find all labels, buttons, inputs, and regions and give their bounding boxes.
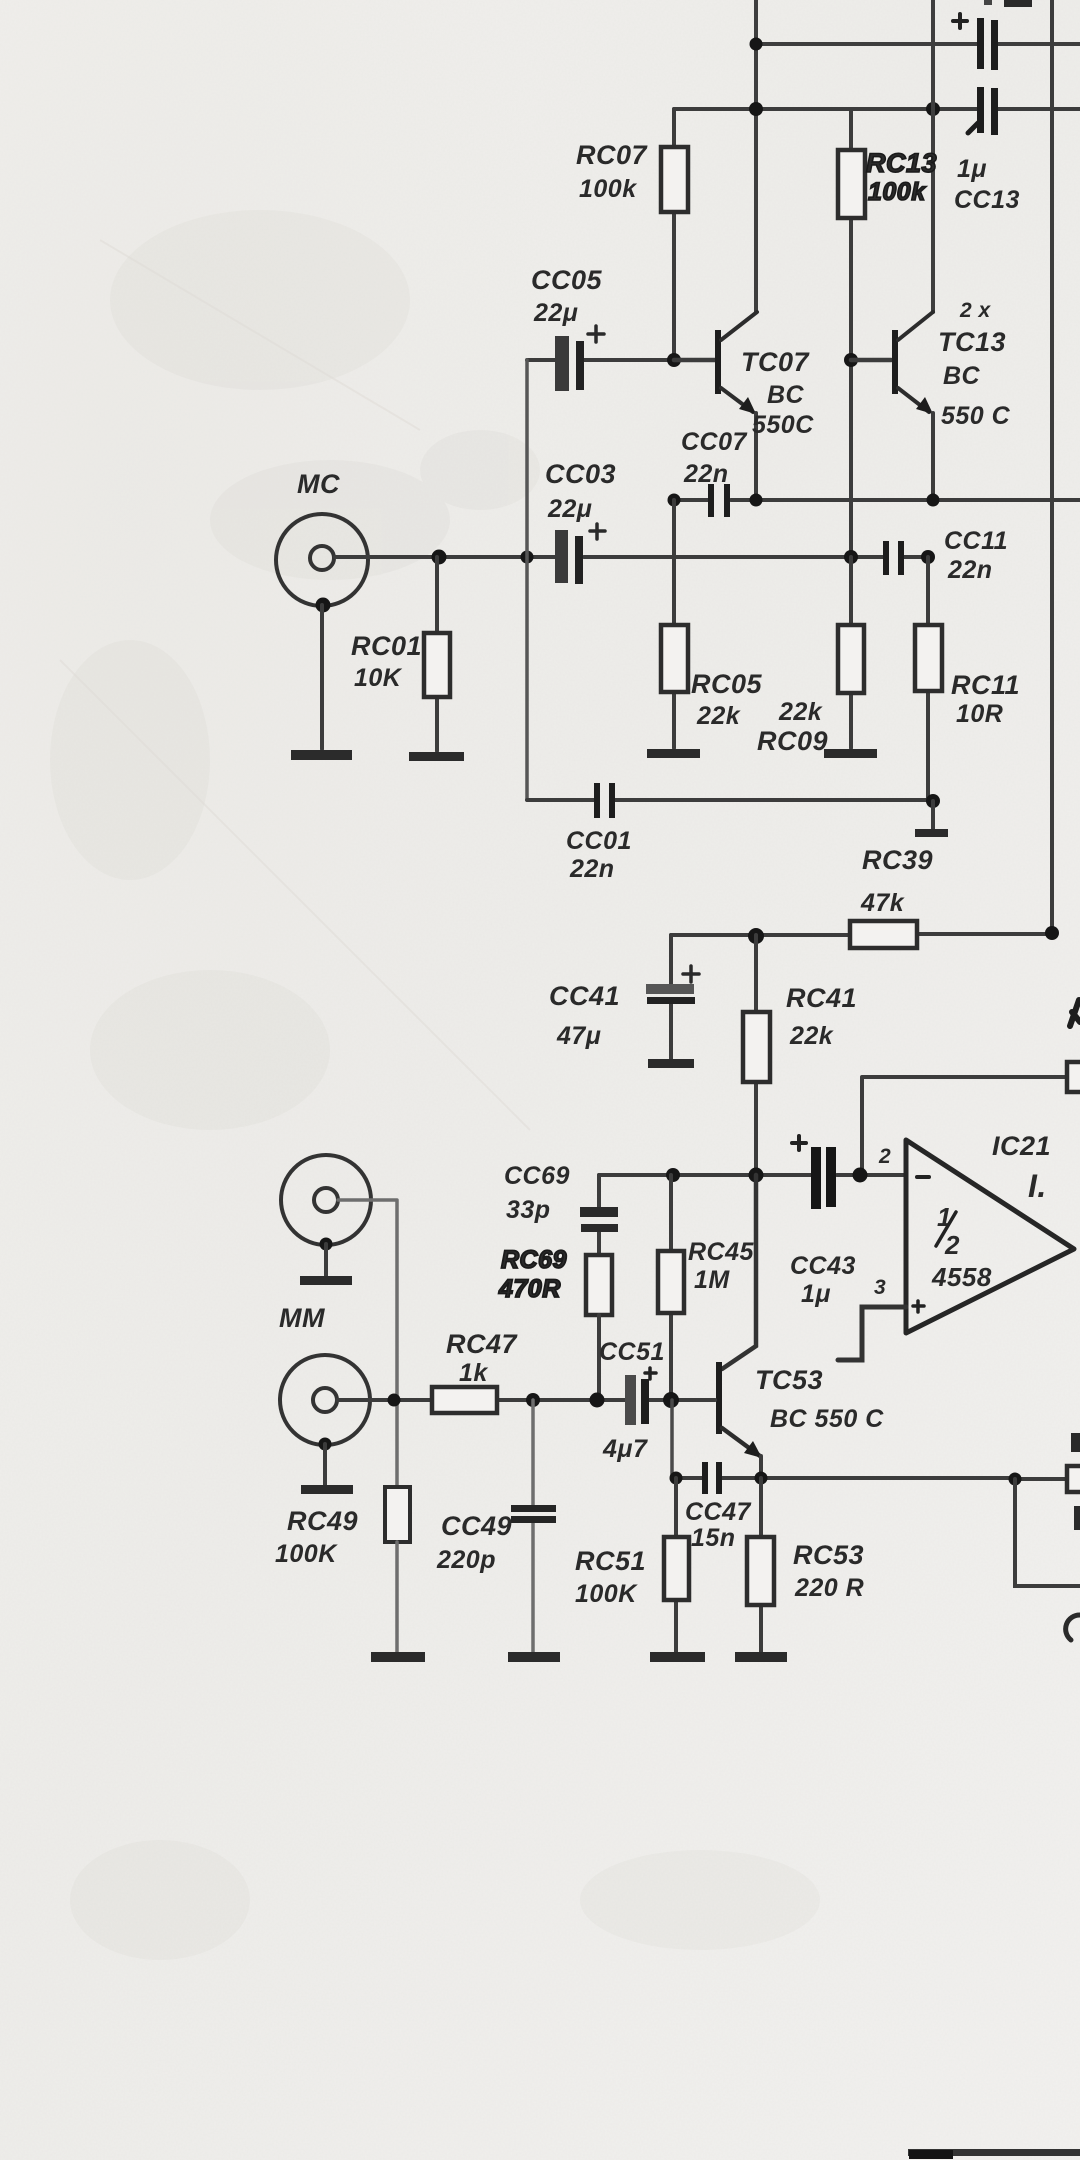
resistor RC51 100K bbox=[674, 1478, 678, 1652]
svg-text:10K: 10K bbox=[354, 664, 403, 692]
junction at (1015,1479) bbox=[1009, 1473, 1022, 1486]
svg-text:MC: MC bbox=[297, 469, 340, 499]
bottom-right frame line (cut) bbox=[908, 2149, 1080, 2156]
junction at (756,44) bbox=[750, 38, 763, 51]
cut-off label fragment right edge bbox=[1070, 1000, 1080, 1026]
svg-text:470R: 470R bbox=[498, 1275, 561, 1303]
wire: emitter line y=500 bbox=[674, 498, 1080, 502]
svg-text:RC09: RC09 bbox=[757, 726, 828, 756]
wire: MM signal line y=1400 bbox=[337, 1398, 715, 1402]
svg-text:CC07: CC07 bbox=[681, 428, 748, 456]
cut-off fragment right edge y=1515 bbox=[1074, 1506, 1080, 1530]
wire: right vertical rail x=1052 bbox=[1050, 0, 1054, 933]
junction at (928,557) bbox=[921, 550, 935, 564]
resistor RC43 (cut at right edge) bbox=[1067, 1062, 1080, 1092]
svg-text:RC05: RC05 bbox=[691, 669, 763, 699]
svg-text:RC41: RC41 bbox=[786, 983, 857, 1013]
svg-text:1: 1 bbox=[937, 1202, 952, 1232]
ground of RC53 bbox=[735, 1652, 787, 1662]
svg-text:CC05: CC05 bbox=[531, 265, 603, 295]
svg-text:22n: 22n bbox=[947, 556, 993, 584]
wire: TC07 collector rail x=756 from top edge bbox=[754, 0, 758, 312]
junction at (674,360) TC07 base node bbox=[667, 353, 681, 367]
junction at (597,1400) bbox=[590, 1393, 605, 1408]
ground of RC09 bbox=[824, 749, 877, 758]
capacitor CC49 220p bbox=[531, 1400, 535, 1652]
ground of CC41 bbox=[648, 1059, 694, 1068]
svg-text:RC01: RC01 bbox=[351, 631, 422, 661]
svg-text:CC49: CC49 bbox=[441, 1511, 512, 1541]
ground stub below RC11 bbox=[931, 801, 935, 829]
ground of upper MM connector bbox=[320, 1238, 333, 1251]
svg-text:1μ: 1μ bbox=[957, 155, 987, 183]
svg-text:220p: 220p bbox=[436, 1546, 496, 1574]
svg-text:22k: 22k bbox=[696, 702, 741, 730]
svg-text:3: 3 bbox=[874, 1276, 886, 1299]
resistor RC05 22k bbox=[672, 500, 676, 748]
MM input connector (upper) bbox=[281, 1155, 371, 1245]
transistor TC07 BC550C bbox=[674, 358, 715, 363]
svg-text:TC13: TC13 bbox=[938, 327, 1006, 357]
svg-text:100K: 100K bbox=[275, 1540, 338, 1568]
svg-text:22n: 22n bbox=[569, 855, 615, 883]
wire: TC53 emitter line y=1478 bbox=[676, 1478, 1067, 1479]
svg-text:BC 550 C: BC 550 C bbox=[770, 1405, 884, 1433]
svg-text:CC51: CC51 bbox=[599, 1338, 665, 1366]
svg-text:550C: 550C bbox=[752, 411, 814, 439]
svg-text:22μ: 22μ bbox=[547, 495, 592, 523]
MM input connector (lower) bbox=[280, 1355, 370, 1445]
svg-text:RC51: RC51 bbox=[575, 1546, 646, 1576]
svg-text:22μ: 22μ bbox=[533, 299, 578, 327]
svg-text:100k: 100k bbox=[868, 178, 926, 206]
wire: top supply line y=44 bbox=[756, 42, 1080, 46]
capacitor CC05 22u bbox=[527, 358, 674, 362]
capacitor CC43 1u bbox=[811, 1147, 821, 1209]
wire: upper MM to lower MM line bbox=[338, 1200, 397, 1487]
junction at (1052,933) bbox=[1045, 926, 1059, 940]
ground of RC05 bbox=[647, 749, 700, 758]
capacitor CC51 4u7 bbox=[625, 1375, 636, 1425]
svg-text:15n: 15n bbox=[691, 1524, 736, 1552]
op-amp minus input mark bbox=[917, 1175, 929, 1179]
wire: CC01 feedback line y=800 bbox=[527, 798, 933, 802]
svg-text:BC: BC bbox=[943, 362, 981, 390]
junction at (851,557) bbox=[844, 550, 858, 564]
resistor RC49 100K bbox=[385, 1487, 410, 1542]
capacitor CC13 1u on y=109 line bbox=[977, 87, 984, 133]
svg-text:2: 2 bbox=[878, 1145, 891, 1168]
capacitor CC01 22n bbox=[594, 783, 600, 818]
svg-text:IC21: IC21 bbox=[992, 1131, 1051, 1161]
capacitor (1u, top, label cut off) on y=44 line bbox=[977, 18, 984, 69]
svg-text:CC41: CC41 bbox=[549, 981, 620, 1011]
svg-text:MM: MM bbox=[279, 1303, 325, 1333]
resistor RC41 22k bbox=[754, 935, 758, 1175]
cut-off fragment right edge y=1440 bbox=[1071, 1433, 1080, 1452]
resistor RC01 10K bbox=[435, 557, 439, 751]
junction at (674,500) bbox=[668, 494, 681, 507]
svg-text:RC07: RC07 bbox=[576, 140, 649, 170]
junction at (437,557) bbox=[432, 550, 447, 565]
svg-text:4μ7: 4μ7 bbox=[602, 1435, 648, 1463]
junction at (527,557) bbox=[521, 551, 534, 564]
capacitor CC07 22n on y=500 bbox=[708, 484, 714, 517]
junction at (756,935) bbox=[748, 928, 764, 944]
capacitor CC47 15n bbox=[702, 1462, 708, 1494]
svg-text:10R: 10R bbox=[956, 700, 1003, 728]
junction at (671,1400) bbox=[663, 1392, 679, 1408]
junction at (756,109) bbox=[749, 102, 763, 116]
svg-text:47k: 47k bbox=[860, 889, 905, 917]
svg-text:CC69: CC69 bbox=[504, 1162, 570, 1190]
junction at (851,360) TC13 base node bbox=[844, 353, 858, 367]
junction at (756,500) bbox=[750, 494, 763, 507]
svg-text:RC49: RC49 bbox=[287, 1506, 358, 1536]
op-amp IC21 1/2 4558 bbox=[906, 1140, 1074, 1333]
capacitor CC41 47u bbox=[669, 935, 673, 1059]
resistor RC45 1M bbox=[669, 1175, 673, 1400]
junction at (933,801) bbox=[926, 794, 940, 808]
svg-text:BC: BC bbox=[767, 381, 805, 409]
svg-text:CC47: CC47 bbox=[685, 1498, 752, 1526]
svg-text:1μ: 1μ bbox=[801, 1280, 831, 1308]
ground of MC connector bbox=[316, 598, 331, 613]
svg-text:47μ: 47μ bbox=[556, 1022, 601, 1050]
svg-text:TC07: TC07 bbox=[741, 347, 811, 377]
svg-text:RC47: RC47 bbox=[446, 1329, 519, 1359]
resistor RC47 1k (horizontal) bbox=[432, 1387, 497, 1413]
ground of CC49 bbox=[508, 1652, 560, 1662]
svg-text:100K: 100K bbox=[575, 1580, 638, 1608]
svg-text:TC53: TC53 bbox=[755, 1365, 823, 1395]
svg-text:RC39: RC39 bbox=[862, 845, 933, 875]
resistor RC55 (cut at right edge) bbox=[1067, 1466, 1080, 1492]
resistor RC39 47k (horizontal) bbox=[671, 934, 1052, 935]
label RC13 100k (bold overwritten) bbox=[866, 148, 937, 206]
resistor RC11 10R bbox=[926, 557, 930, 801]
ground of lower MM connector bbox=[319, 1438, 332, 1451]
op-amp plus input mark bbox=[913, 1301, 924, 1312]
svg-text:RC45: RC45 bbox=[688, 1238, 755, 1266]
ground of RC49 bbox=[371, 1652, 425, 1662]
svg-text:RC11: RC11 bbox=[951, 670, 1020, 700]
svg-text:CC11: CC11 bbox=[944, 527, 1008, 555]
wire: second supply line y=109 bbox=[674, 107, 1080, 111]
svg-text:22n: 22n bbox=[683, 460, 729, 488]
junction at (860,1175) bbox=[853, 1168, 868, 1183]
resistor RC09 22k bbox=[849, 557, 853, 748]
cut-off label fragment top edge bbox=[1004, 0, 1032, 7]
wire: base node down to RC51/CC47 node bbox=[670, 1400, 674, 1478]
resistor RC07 100k bbox=[672, 109, 676, 360]
svg-text:CC01: CC01 bbox=[566, 827, 632, 855]
svg-text:22k: 22k bbox=[778, 698, 823, 726]
junction at (533,1400) bbox=[526, 1393, 540, 1407]
resistor RC69 470R bbox=[586, 1255, 612, 1315]
junction at (394,1400) bbox=[388, 1394, 401, 1407]
wire: feedback line y=1077 to RC43 bbox=[862, 1077, 1067, 1175]
svg-text:RC53: RC53 bbox=[793, 1540, 864, 1570]
ground of RC01 bbox=[409, 752, 464, 761]
wire: op-amp pin3 stub bbox=[838, 1307, 906, 1360]
svg-text:33p: 33p bbox=[506, 1196, 551, 1224]
wire: RC13 lead down to TC13 base x=851 bbox=[849, 360, 853, 557]
svg-text:CC13: CC13 bbox=[954, 186, 1020, 214]
svg-text:CC03: CC03 bbox=[545, 459, 616, 489]
junction at (933,109) bbox=[926, 102, 940, 116]
svg-text:1M: 1M bbox=[694, 1266, 730, 1294]
polarity + of top capacitor bbox=[953, 14, 967, 28]
svg-text:220 R: 220 R bbox=[794, 1574, 864, 1602]
transistor TC13 BC550C bbox=[851, 358, 891, 363]
junction at (676,1478) bbox=[670, 1472, 683, 1485]
svg-text:1k: 1k bbox=[459, 1359, 488, 1387]
MC input connector bbox=[276, 514, 368, 606]
resistor RC53 220R bbox=[759, 1478, 763, 1652]
svg-text:550 C: 550 C bbox=[941, 402, 1011, 430]
capacitor CC03 22u in MC line bbox=[555, 530, 568, 583]
cut-off label C right edge y=1625 bbox=[1066, 1615, 1080, 1640]
wire: output branch down to y=1586 bbox=[1015, 1479, 1080, 1586]
junction at (933,500) bbox=[927, 494, 940, 507]
junction at (761,1478) bbox=[755, 1472, 768, 1485]
wire: MC signal line y=557 bbox=[335, 555, 928, 559]
svg-text:RC13: RC13 bbox=[866, 148, 937, 178]
capacitor CC11 22n in MC line bbox=[883, 541, 889, 575]
capacitor CC69 33p bbox=[597, 1175, 601, 1255]
svg-text:2 x: 2 x bbox=[959, 299, 992, 322]
svg-text:100k: 100k bbox=[579, 175, 637, 203]
svg-text:2: 2 bbox=[944, 1230, 960, 1260]
transistor TC53 BC550C bbox=[722, 1175, 756, 1369]
svg-text:22k: 22k bbox=[789, 1022, 834, 1050]
junction at (756,1175) bbox=[749, 1168, 764, 1183]
svg-text:4558: 4558 bbox=[931, 1262, 992, 1292]
junction at (673,1175) bbox=[666, 1168, 680, 1182]
resistor RC13 100k bbox=[849, 109, 853, 360]
wire: feedback rail x=527 bbox=[525, 360, 529, 800]
wire: summing node line y=1175 bbox=[599, 1173, 906, 1177]
svg-text:RC69: RC69 bbox=[501, 1246, 567, 1274]
svg-text:CC43: CC43 bbox=[790, 1252, 856, 1280]
wire: TC13 collector rail x=933 from top edge bbox=[931, 0, 935, 312]
ground of RC51 bbox=[650, 1652, 705, 1662]
svg-text:I.: I. bbox=[1028, 1168, 1047, 1204]
